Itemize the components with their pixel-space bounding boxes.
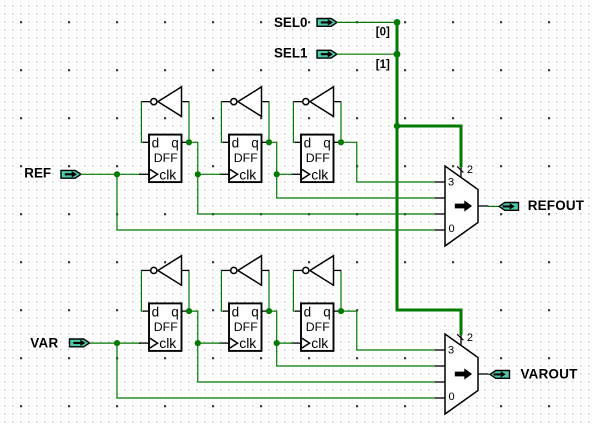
junction DFF5 Q node <box>266 308 272 314</box>
svg-text:SEL0: SEL0 <box>274 15 308 30</box>
wire INV5 output to DFF5 D <box>221 270 224 311</box>
multiplexer MUX2 <box>435 334 488 414</box>
svg-text:[1]: [1] <box>376 59 390 71</box>
svg-text:3: 3 <box>448 344 454 356</box>
bus branch to MUX2 select <box>396 310 461 335</box>
input port SEL1 <box>317 50 337 58</box>
wire DFF1 Q to DFF2 clk <box>189 142 221 174</box>
input port REF <box>61 170 81 178</box>
junction DFF5 clk node <box>195 340 201 346</box>
bus SEL(1:0) vertical <box>396 22 399 310</box>
svg-text:0: 0 <box>449 223 455 235</box>
wire DFF4 Q to MUX in1 <box>198 343 436 382</box>
wire DFF4 Q to INV4 input <box>188 270 190 311</box>
svg-text:[0]: [0] <box>376 27 390 39</box>
wire INV2 output to DFF2 D <box>221 102 224 143</box>
junction DFF2 clk node <box>195 171 201 177</box>
wire DFF1 Q to MUX in1 <box>198 174 436 214</box>
D flip-flop DFF4 <box>139 303 189 351</box>
wire MUX1 to REFOUT <box>488 205 499 207</box>
wire DFF1 Q to INV1 input <box>188 102 190 143</box>
junction DFF3 clk node <box>274 171 280 177</box>
junction DFF4 Q node <box>186 308 192 314</box>
wire INV6 output to DFF6 D <box>293 270 296 311</box>
wire DFF4 Q to DFF5 clk <box>189 311 221 343</box>
MUX2 bus width slash <box>457 334 463 340</box>
output port VAROUT <box>490 371 510 379</box>
junction SEL0-bus <box>394 19 401 26</box>
D flip-flop DFF5 <box>219 303 269 351</box>
inverter INV6 <box>293 256 341 285</box>
wire DFF6 Q to INV6 input <box>340 270 342 311</box>
junction bus branch MUX1 <box>394 123 400 129</box>
input port SEL0 <box>317 19 337 27</box>
wire DFF2 Q to INV2 input <box>268 102 270 143</box>
wire INV1 output to DFF1 D <box>141 102 144 143</box>
inverter INV5 <box>221 256 269 285</box>
wire DFF2 Q to DFF3 clk <box>269 142 293 174</box>
bus branch to MUX1 select <box>397 126 461 167</box>
junction DFF2 Q node <box>266 139 272 145</box>
multiplexer MUX1 <box>435 166 488 246</box>
wire VAR to MUX in0 <box>117 343 436 398</box>
D flip-flop DFF2 <box>219 135 269 183</box>
inverter INV4 <box>141 256 189 285</box>
wire DFF6 Q to MUX in3 <box>340 311 436 350</box>
wire SEL1 to bus <box>337 53 397 55</box>
wire REF to MUX in0 <box>117 174 436 230</box>
junction VAR node <box>114 340 120 346</box>
junction SEL1-bus <box>394 51 401 58</box>
MUX1 select pin <box>460 167 462 178</box>
svg-text:VAROUT: VAROUT <box>521 367 579 382</box>
junction DFF6 Q node <box>338 308 344 314</box>
inverter INV3 <box>293 87 341 117</box>
svg-text:SEL1: SEL1 <box>274 46 308 61</box>
wire DFF3 Q to INV3 input <box>340 102 342 143</box>
wire DFF5 Q to DFF6 clk <box>269 311 293 343</box>
wire MUX2 to VAROUT <box>488 373 490 375</box>
wire VAR to DFF4 clk <box>90 342 142 344</box>
wire DFF5 Q to MUX in2 <box>277 343 436 366</box>
input port VAR <box>70 339 90 347</box>
svg-text:REF: REF <box>24 166 51 181</box>
output port REFOUT <box>499 203 519 211</box>
svg-text:2: 2 <box>467 332 473 344</box>
inverter INV2 <box>221 87 269 117</box>
wire INV4 output to DFF4 D <box>141 270 144 311</box>
wire DFF5 Q to INV5 input <box>268 270 270 311</box>
inverter INV1 <box>141 87 189 117</box>
junction DFF1 Q node <box>186 139 192 145</box>
wire SEL0 to bus <box>337 21 397 23</box>
svg-text:0: 0 <box>449 391 455 403</box>
svg-text:VAR: VAR <box>30 335 58 350</box>
wire INV3 output to DFF3 D <box>293 102 296 143</box>
wire REF to DFF1 clk <box>81 173 141 175</box>
wire DFF3 Q to MUX in3 <box>340 142 436 182</box>
D flip-flop DFF3 <box>291 135 341 183</box>
svg-text:3: 3 <box>448 176 454 188</box>
svg-text:REFOUT: REFOUT <box>528 198 585 213</box>
junction DFF6 clk node <box>274 340 280 346</box>
junction DFF3 Q node <box>338 139 344 145</box>
wire DFF2 Q to MUX in2 <box>277 174 436 198</box>
D flip-flop DFF6 <box>291 303 341 351</box>
D flip-flop DFF1 <box>139 135 189 183</box>
junction REF node <box>114 171 120 177</box>
svg-text:2: 2 <box>467 164 473 176</box>
MUX1 bus width slash <box>457 166 463 172</box>
MUX2 select pin <box>460 335 462 345</box>
